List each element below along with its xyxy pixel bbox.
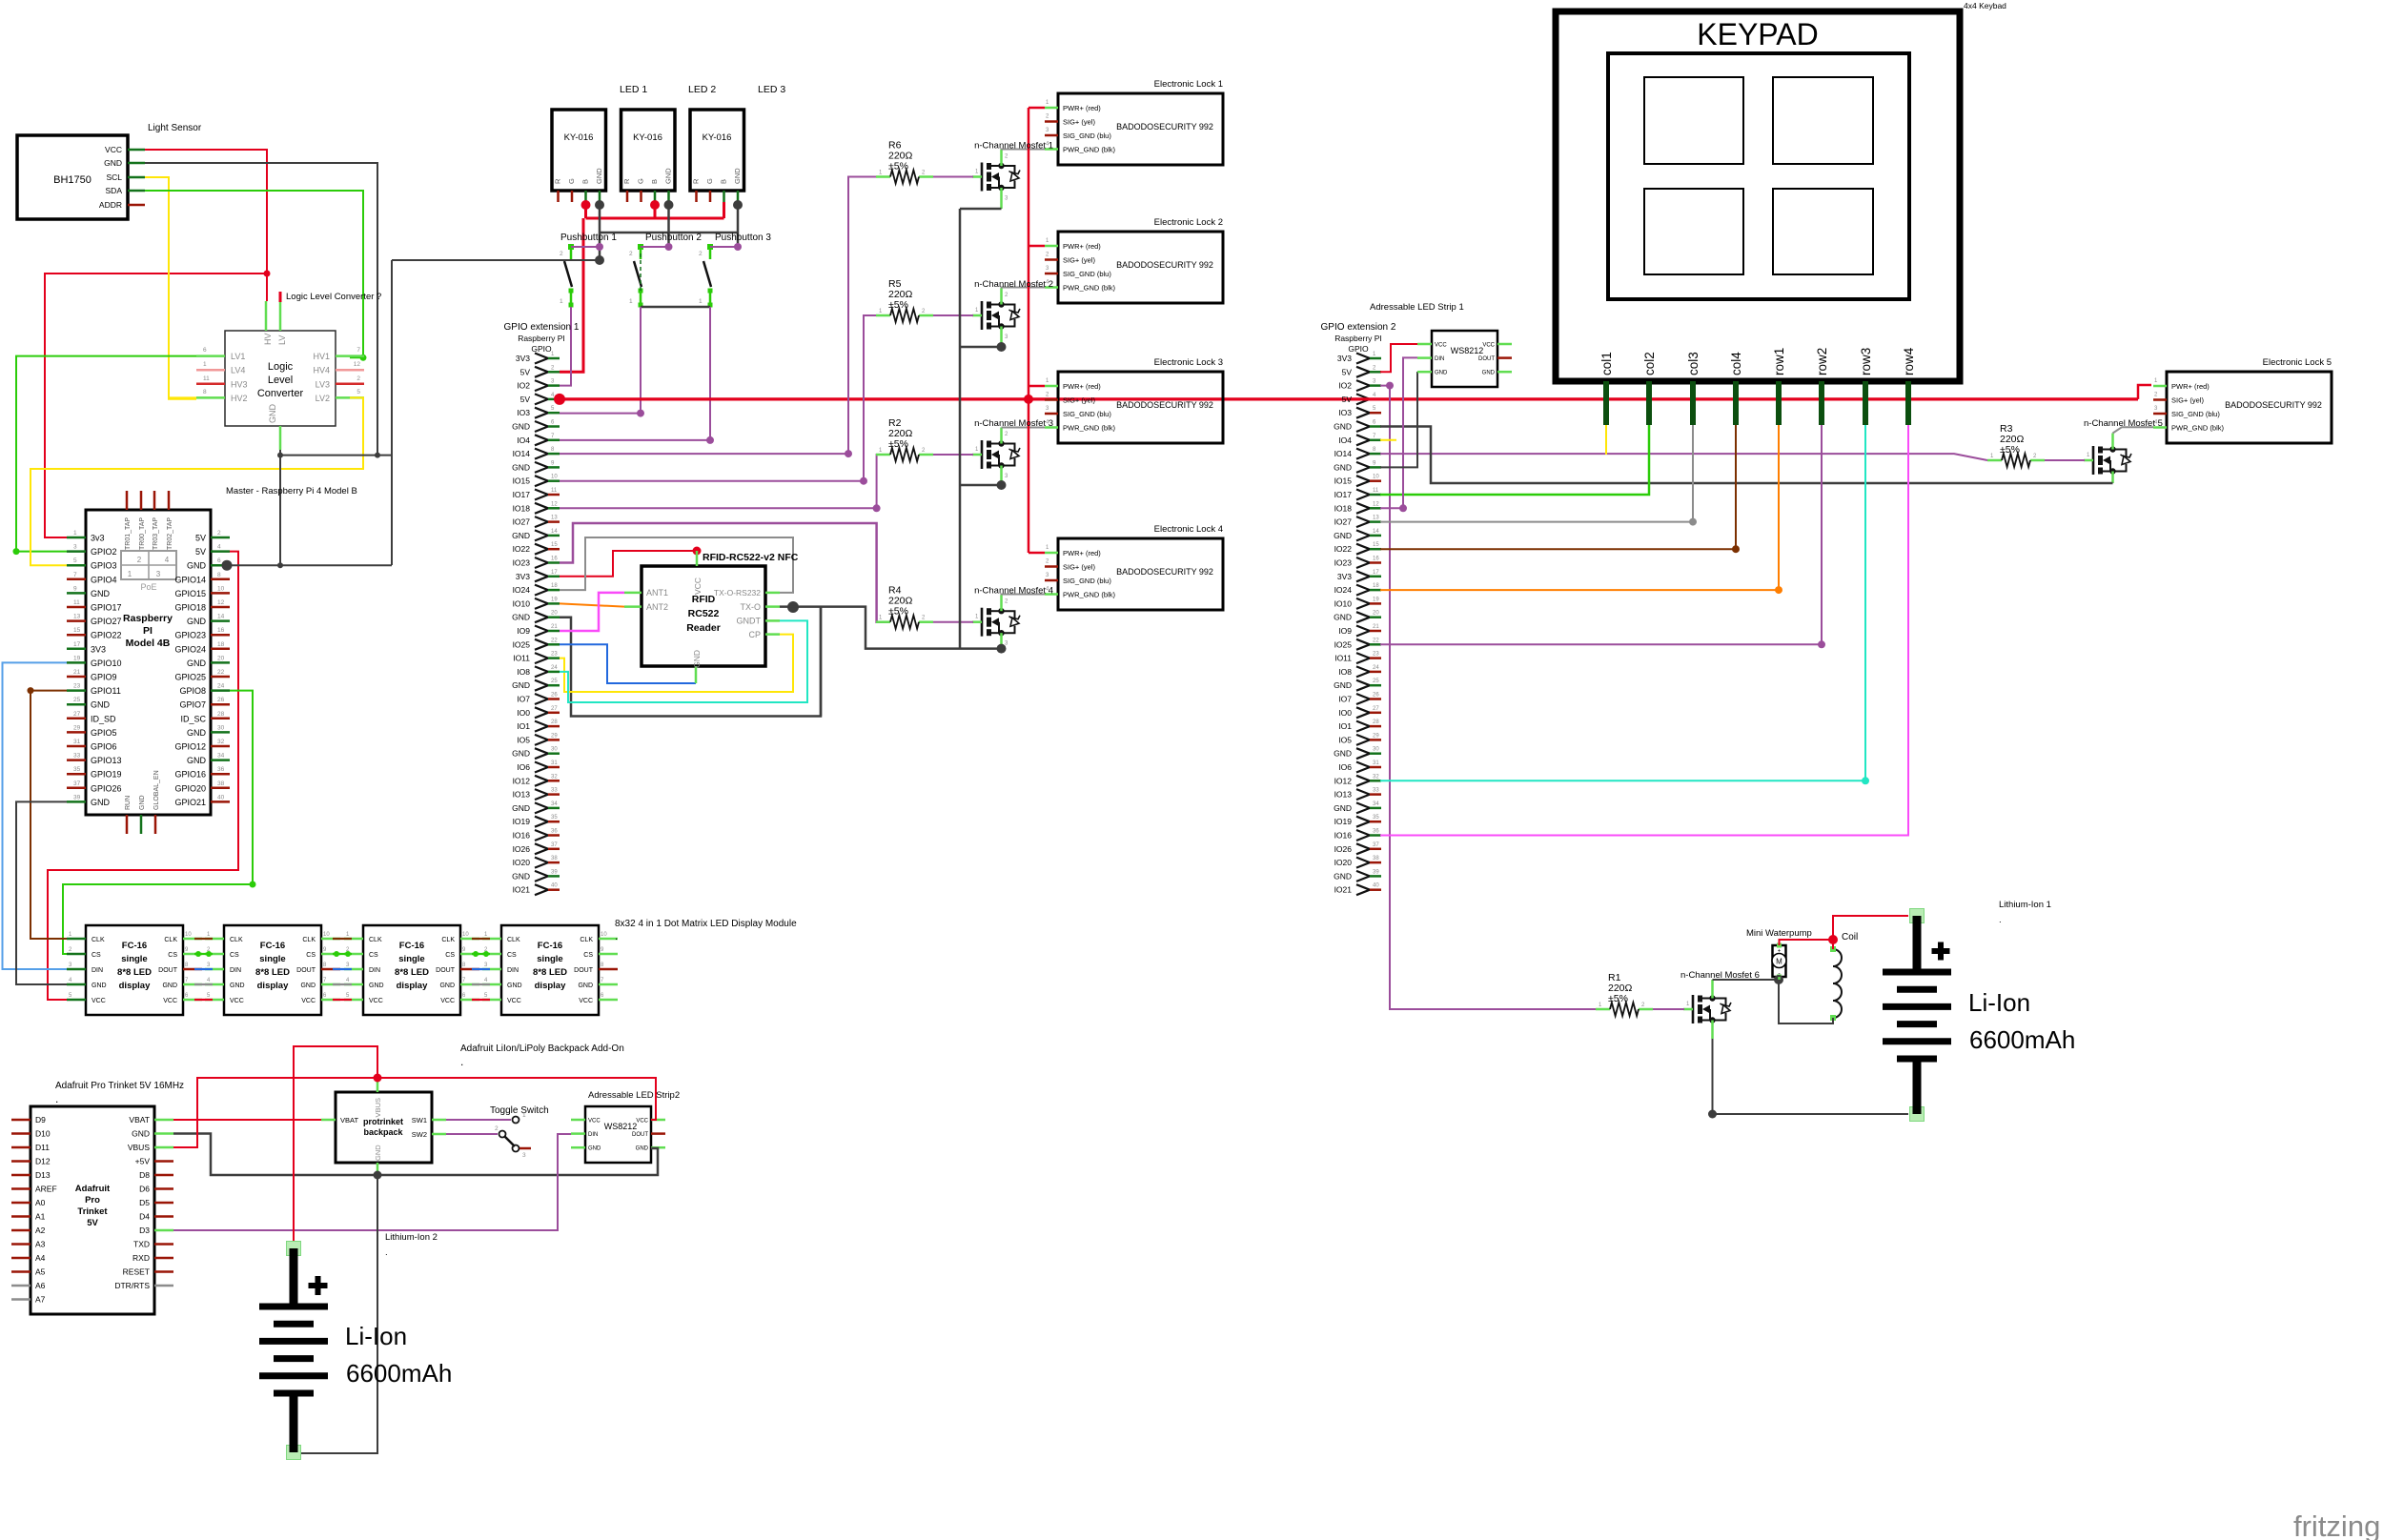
svg-text:3V3: 3V3 (516, 572, 530, 581)
svg-text:33: 33 (551, 788, 558, 794)
svg-text:12: 12 (354, 361, 361, 368)
svg-text:20: 20 (551, 611, 558, 617)
svg-text:display: display (535, 981, 566, 991)
svg-text:KEYPAD: KEYPAD (1697, 17, 1818, 51)
svg-text:protrinket: protrinket (363, 1117, 403, 1126)
svg-text:.: . (55, 1092, 58, 1105)
svg-text:IO12: IO12 (1334, 776, 1353, 785)
svg-text:A5: A5 (35, 1267, 46, 1277)
svg-text:PWR_GND (blk): PWR_GND (blk) (1063, 284, 1116, 293)
svg-text:VCC: VCC (636, 1119, 648, 1125)
svg-text:±5%: ±5% (2000, 444, 2020, 456)
svg-text:Logic Level Converter ?: Logic Level Converter ? (286, 292, 381, 302)
svg-text:single: single (121, 954, 147, 964)
svg-text:GPIO18: GPIO18 (174, 603, 206, 613)
svg-text:±5%: ±5% (888, 299, 908, 311)
svg-text:GND: GND (1482, 371, 1496, 376)
svg-text:IO9: IO9 (517, 626, 530, 636)
svg-text:Raspberry PI: Raspberry PI (518, 334, 565, 343)
svg-text:DOUT: DOUT (632, 1132, 648, 1138)
svg-text:IO23: IO23 (1334, 558, 1353, 568)
svg-text:B: B (650, 179, 659, 184)
svg-text:2: 2 (356, 375, 360, 382)
svg-text:GND: GND (300, 983, 316, 989)
svg-text:18: 18 (1373, 583, 1379, 589)
svg-text:D8: D8 (139, 1170, 150, 1180)
svg-text:34: 34 (217, 753, 225, 760)
svg-text:GND: GND (1334, 803, 1352, 813)
svg-text:GPIO22: GPIO22 (91, 631, 122, 640)
svg-text:CS: CS (583, 952, 593, 959)
svg-text:IO21: IO21 (513, 885, 531, 895)
svg-text:32: 32 (217, 739, 225, 745)
svg-text:HV: HV (263, 333, 273, 345)
svg-text:VCC: VCC (1435, 343, 1447, 349)
svg-text:19: 19 (73, 655, 81, 661)
svg-text:fritzing: fritzing (2293, 1510, 2380, 1540)
svg-text:n-Channel Mosfet 1: n-Channel Mosfet 1 (974, 141, 1053, 152)
svg-text:GPIO20: GPIO20 (174, 783, 206, 793)
svg-text:GND: GND (91, 700, 111, 710)
svg-text:GND: GND (268, 404, 277, 424)
svg-text:5: 5 (356, 389, 360, 395)
svg-text:BADODOSECURITY 992: BADODOSECURITY 992 (1116, 122, 1213, 132)
svg-text:2: 2 (495, 1125, 499, 1132)
svg-text:GPIO8: GPIO8 (179, 686, 206, 696)
svg-text:GND: GND (187, 561, 207, 571)
svg-text:GND: GND (187, 728, 207, 738)
svg-text:GND: GND (91, 798, 111, 807)
svg-text:Logic: Logic (268, 361, 294, 373)
svg-text:33: 33 (73, 753, 81, 760)
svg-text:5V: 5V (1342, 395, 1353, 404)
svg-text:IO22: IO22 (513, 544, 531, 554)
svg-text:IO6: IO6 (1338, 762, 1352, 772)
svg-text:11: 11 (203, 375, 210, 382)
svg-text:±5%: ±5% (888, 438, 908, 450)
svg-text:G: G (705, 178, 714, 184)
svg-text:M: M (1776, 958, 1782, 966)
svg-text:GNDT: GNDT (737, 617, 762, 626)
svg-text:PWR+ (red): PWR+ (red) (1063, 382, 1101, 391)
svg-text:GPIO extension 2: GPIO extension 2 (1321, 322, 1396, 333)
svg-text:DIN: DIN (1435, 356, 1444, 362)
svg-text:single: single (537, 954, 562, 964)
svg-text:Electronic Lock 4: Electronic Lock 4 (1154, 524, 1223, 535)
svg-text:IO19: IO19 (513, 817, 531, 826)
svg-text:GND: GND (578, 983, 593, 989)
svg-text:IO5: IO5 (517, 735, 530, 744)
svg-text:display: display (119, 981, 151, 991)
svg-text:38: 38 (1373, 856, 1379, 861)
svg-text:±5%: ±5% (888, 161, 908, 172)
svg-text:D12: D12 (35, 1157, 51, 1166)
svg-text:GND: GND (369, 983, 384, 989)
svg-text:26: 26 (217, 697, 225, 703)
svg-text:GND: GND (664, 168, 673, 184)
svg-text:24: 24 (217, 683, 225, 690)
svg-text:5: 5 (73, 557, 77, 564)
svg-text:D9: D9 (35, 1115, 46, 1125)
svg-text:1: 1 (522, 1112, 526, 1119)
svg-text:col1: col1 (1599, 352, 1614, 375)
svg-text:GND: GND (507, 983, 522, 989)
svg-text:29: 29 (73, 724, 81, 731)
svg-text:GND: GND (162, 983, 177, 989)
svg-text:VCC: VCC (105, 145, 122, 154)
svg-text:IO18: IO18 (513, 503, 531, 513)
svg-text:display: display (397, 981, 428, 991)
svg-text:CS: CS (507, 952, 517, 959)
svg-text:31: 31 (73, 739, 81, 745)
svg-text:n-Channel Mosfet 6: n-Channel Mosfet 6 (1680, 970, 1760, 981)
svg-text:VCC: VCC (579, 998, 593, 1004)
svg-text:Coil: Coil (1842, 932, 1858, 942)
svg-text:LV3: LV3 (316, 379, 330, 389)
svg-text:Model 4B: Model 4B (126, 638, 171, 649)
svg-text:ANT2: ANT2 (646, 602, 668, 612)
svg-text:VCC: VCC (507, 998, 521, 1004)
svg-text:1: 1 (699, 298, 703, 305)
svg-text:GPIO4: GPIO4 (91, 575, 117, 584)
svg-text:TR00_TAP: TR00_TAP (139, 517, 146, 550)
svg-text:DOUT: DOUT (158, 967, 178, 974)
svg-text:5V: 5V (520, 395, 531, 404)
svg-text:PWR+ (red): PWR+ (red) (2171, 382, 2210, 391)
svg-text:GND: GND (595, 168, 603, 184)
svg-text:DIN: DIN (92, 967, 103, 974)
svg-text:Li-Ion: Li-Ion (1968, 988, 2030, 1017)
svg-text:RUN: RUN (125, 796, 132, 810)
svg-text:A0: A0 (35, 1198, 46, 1207)
svg-text:SIG+ (yel): SIG+ (yel) (1063, 396, 1095, 405)
svg-text:31: 31 (1373, 760, 1379, 766)
svg-text:SDA: SDA (106, 186, 123, 195)
svg-text:col3: col3 (1686, 352, 1701, 375)
svg-text:8*8 LED: 8*8 LED (533, 967, 567, 978)
svg-text:CLK: CLK (92, 937, 105, 943)
svg-text:1: 1 (629, 298, 633, 305)
svg-text:CS: CS (445, 952, 455, 959)
svg-text:30: 30 (1373, 747, 1379, 753)
svg-text:+5V: +5V (135, 1157, 151, 1166)
svg-text:GPIO16: GPIO16 (174, 770, 206, 780)
svg-text:Master - Raspberry Pi 4 Model: Master - Raspberry Pi 4 Model B (226, 486, 357, 496)
svg-text:Adafruit LiIon/LiPoly Backpack: Adafruit LiIon/LiPoly Backpack Add-On (460, 1044, 624, 1054)
svg-text:SCL: SCL (106, 172, 122, 182)
svg-text:32: 32 (1373, 774, 1379, 780)
svg-text:DIN: DIN (507, 967, 519, 974)
svg-text:SIG_GND (blu): SIG_GND (blu) (1063, 410, 1111, 418)
svg-text:IO3: IO3 (517, 408, 530, 417)
svg-text:PWR_GND (blk): PWR_GND (blk) (2171, 424, 2225, 433)
svg-text:3: 3 (156, 570, 161, 578)
svg-text:37: 37 (73, 780, 81, 787)
svg-text:single: single (259, 954, 285, 964)
svg-text:DIN: DIN (230, 967, 241, 974)
svg-text:IO19: IO19 (1334, 817, 1353, 826)
svg-text:1: 1 (73, 530, 77, 537)
svg-text:IO22: IO22 (1334, 544, 1353, 554)
svg-text:GND: GND (1334, 680, 1352, 690)
svg-text:5V: 5V (520, 367, 531, 376)
svg-text:GND: GND (733, 168, 742, 184)
svg-text:DIN: DIN (588, 1132, 598, 1138)
svg-text:30: 30 (217, 724, 225, 731)
svg-text:GND: GND (187, 617, 207, 626)
svg-text:CP: CP (748, 630, 761, 639)
svg-text:2: 2 (629, 251, 633, 257)
svg-text:19: 19 (551, 597, 558, 602)
svg-text:IO5: IO5 (1338, 735, 1352, 744)
svg-text:D11: D11 (35, 1143, 50, 1152)
svg-text:32: 32 (551, 774, 558, 780)
svg-text:IO3: IO3 (1338, 408, 1352, 417)
svg-text:Level: Level (268, 375, 293, 386)
svg-text:row3: row3 (1859, 348, 1873, 375)
svg-text:IO1: IO1 (517, 721, 530, 731)
svg-text:CLK: CLK (369, 937, 382, 943)
svg-text:27: 27 (1373, 706, 1379, 712)
svg-text:CS: CS (306, 952, 316, 959)
svg-text:BADODOSECURITY 992: BADODOSECURITY 992 (2225, 400, 2322, 410)
svg-text:+: + (1778, 949, 1782, 955)
svg-text:IO15: IO15 (513, 476, 531, 486)
svg-text:A1: A1 (35, 1212, 46, 1222)
svg-text:IO7: IO7 (517, 695, 530, 704)
svg-text:11: 11 (551, 488, 558, 494)
svg-text:14: 14 (551, 529, 558, 535)
svg-text:HV3: HV3 (231, 379, 248, 389)
svg-text:row1: row1 (1772, 348, 1786, 375)
svg-text:R: R (622, 178, 631, 184)
svg-text:SIG_GND (blu): SIG_GND (blu) (1063, 577, 1111, 585)
svg-text:IO25: IO25 (1334, 639, 1353, 649)
svg-text:35: 35 (73, 766, 81, 773)
svg-text:IO27: IO27 (1334, 517, 1353, 527)
svg-text:VCC: VCC (1482, 343, 1495, 349)
svg-text:RXD: RXD (132, 1253, 150, 1263)
svg-text:IO24: IO24 (513, 585, 531, 595)
svg-text:IO16: IO16 (1334, 831, 1353, 841)
svg-text:21: 21 (73, 669, 81, 676)
svg-text:GPIO9: GPIO9 (91, 673, 117, 682)
svg-text:36: 36 (1373, 829, 1379, 835)
svg-text:Adafruit Pro Trinket 5V 16MHz: Adafruit Pro Trinket 5V 16MHz (55, 1081, 184, 1091)
svg-text:25: 25 (1373, 679, 1379, 684)
svg-text:40: 40 (551, 883, 558, 889)
svg-text:IO9: IO9 (1338, 626, 1352, 636)
svg-text:3V3: 3V3 (1337, 354, 1352, 363)
svg-text:R: R (554, 178, 562, 184)
svg-text:single: single (398, 954, 424, 964)
svg-text:12: 12 (217, 599, 225, 606)
svg-text:SW2: SW2 (412, 1130, 427, 1139)
svg-text:GLOBAL_EN: GLOBAL_EN (153, 770, 160, 810)
svg-text:30: 30 (551, 747, 558, 753)
svg-text:27: 27 (73, 711, 81, 718)
svg-text:GPIO25: GPIO25 (174, 673, 206, 682)
svg-text:Reader: Reader (686, 622, 721, 634)
svg-text:22: 22 (1373, 638, 1379, 643)
svg-text:IO1: IO1 (1338, 721, 1352, 731)
svg-text:Lithium-Ion 2: Lithium-Ion 2 (385, 1232, 438, 1243)
svg-text:IO17: IO17 (1334, 490, 1353, 499)
svg-text:n-Channel Mosfet 2: n-Channel Mosfet 2 (974, 279, 1053, 290)
svg-text:10: 10 (1373, 475, 1379, 480)
svg-text:GND: GND (692, 650, 702, 668)
svg-text:18: 18 (217, 641, 225, 648)
svg-text:IO20: IO20 (513, 858, 531, 867)
svg-text:GND: GND (588, 1146, 601, 1152)
svg-text:col4: col4 (1729, 352, 1743, 375)
svg-text:15: 15 (1373, 542, 1379, 548)
svg-text:row4: row4 (1902, 347, 1916, 375)
svg-text:GND: GND (512, 613, 530, 622)
svg-text:4: 4 (217, 544, 221, 551)
svg-text:GND: GND (512, 680, 530, 690)
svg-text:Mini Waterpump: Mini Waterpump (1746, 928, 1812, 939)
svg-text:D4: D4 (139, 1212, 150, 1222)
svg-text:17: 17 (551, 570, 558, 576)
svg-text:IO17: IO17 (513, 490, 531, 499)
svg-text:3V3: 3V3 (516, 354, 530, 363)
svg-text:38: 38 (551, 856, 558, 861)
svg-text:12: 12 (1373, 501, 1379, 507)
svg-text:LED 2: LED 2 (688, 84, 716, 95)
svg-text:VBUS: VBUS (374, 1098, 382, 1117)
svg-text:1: 1 (128, 570, 132, 578)
svg-text:LED 1: LED 1 (620, 84, 647, 95)
svg-text:D3: D3 (139, 1226, 150, 1235)
svg-text:SIG_GND (blu): SIG_GND (blu) (2171, 410, 2220, 418)
svg-text:WS8212: WS8212 (1451, 346, 1484, 355)
svg-text:16: 16 (217, 627, 225, 634)
svg-text:CLK: CLK (230, 937, 243, 943)
svg-text:VCC: VCC (230, 998, 244, 1004)
svg-text:Adafruit: Adafruit (75, 1184, 111, 1194)
svg-text:6: 6 (217, 557, 221, 564)
svg-text:FC-16: FC-16 (260, 941, 285, 951)
svg-text:40: 40 (217, 794, 225, 800)
svg-text:Adressable LED Strip 1: Adressable LED Strip 1 (1370, 302, 1464, 313)
svg-text:Electronic Lock 5: Electronic Lock 5 (2263, 357, 2332, 368)
svg-text:GND: GND (512, 422, 530, 432)
svg-text:21: 21 (551, 624, 558, 630)
svg-text:3: 3 (73, 544, 77, 551)
svg-text:2: 2 (699, 251, 703, 257)
svg-text:GPIO3: GPIO3 (91, 561, 117, 571)
svg-text:2: 2 (217, 530, 221, 537)
svg-text:Electronic Lock 2: Electronic Lock 2 (1154, 217, 1223, 228)
svg-text:GPIO2: GPIO2 (91, 547, 117, 557)
svg-text:KY-016: KY-016 (633, 132, 662, 143)
svg-text:20: 20 (1373, 611, 1379, 617)
svg-text:GPIO27: GPIO27 (91, 617, 122, 626)
svg-text:GPIO19: GPIO19 (91, 770, 122, 780)
svg-text:SIG+ (yel): SIG+ (yel) (2171, 396, 2204, 405)
svg-text:IO21: IO21 (1334, 885, 1353, 895)
svg-text:BADODOSECURITY 992: BADODOSECURITY 992 (1116, 400, 1213, 410)
svg-text:GND: GND (132, 1129, 150, 1139)
svg-text:36: 36 (551, 829, 558, 835)
svg-text:7: 7 (73, 572, 77, 578)
svg-text:8*8 LED: 8*8 LED (117, 967, 152, 978)
svg-text:17: 17 (1373, 570, 1379, 576)
svg-text:GND: GND (512, 871, 530, 881)
svg-text:GND: GND (1435, 371, 1448, 376)
svg-text:GPIO21: GPIO21 (174, 798, 206, 807)
svg-text:RFID-RC522-v2 NFC: RFID-RC522-v2 NFC (703, 552, 799, 563)
svg-text:±5%: ±5% (888, 606, 908, 618)
svg-text:LV1: LV1 (231, 352, 245, 361)
svg-text:15: 15 (551, 542, 558, 548)
svg-text:GPIO24: GPIO24 (174, 644, 206, 654)
svg-text:A2: A2 (35, 1226, 46, 1235)
svg-text:5V: 5V (1342, 367, 1353, 376)
svg-text:GND: GND (512, 749, 530, 759)
svg-text:14: 14 (217, 614, 225, 620)
svg-text:29: 29 (551, 733, 558, 739)
svg-text:D10: D10 (35, 1129, 51, 1139)
svg-text:GND: GND (1334, 531, 1352, 540)
svg-text:25: 25 (73, 697, 81, 703)
svg-text:LV2: LV2 (316, 394, 330, 403)
svg-text:VCC: VCC (92, 998, 106, 1004)
svg-text:GPIO12: GPIO12 (174, 742, 206, 752)
svg-text:IO4: IO4 (517, 436, 530, 445)
svg-text:GND: GND (230, 983, 245, 989)
svg-text:n-Channel Mosfet 5: n-Channel Mosfet 5 (2084, 418, 2163, 429)
svg-text:HV4: HV4 (313, 366, 330, 375)
svg-text:Trinket: Trinket (77, 1206, 108, 1217)
svg-text:19: 19 (1373, 597, 1379, 602)
svg-text:10: 10 (601, 932, 607, 938)
svg-text:GPIO10: GPIO10 (91, 659, 122, 668)
svg-text:7: 7 (356, 347, 360, 354)
svg-text:IO18: IO18 (1334, 503, 1353, 513)
svg-text:FC-16: FC-16 (538, 941, 562, 951)
svg-text:Pushbutton 1: Pushbutton 1 (560, 233, 617, 243)
svg-text:PWR_GND (blk): PWR_GND (blk) (1063, 591, 1116, 599)
svg-text:ADDR: ADDR (99, 200, 122, 210)
svg-text:PWR+ (red): PWR+ (red) (1063, 242, 1101, 251)
svg-text:n-Channel Mosfet 3: n-Channel Mosfet 3 (974, 418, 1053, 429)
svg-text:34: 34 (551, 801, 558, 807)
svg-text:IO24: IO24 (1334, 585, 1353, 595)
svg-text:IO11: IO11 (1334, 654, 1352, 663)
svg-text:TXD: TXD (133, 1240, 150, 1249)
svg-text:GPIO: GPIO (531, 344, 552, 354)
svg-text:WS8212: WS8212 (604, 1122, 638, 1131)
svg-text:GND: GND (139, 795, 146, 810)
svg-text:8x32 4 in 1 Dot Matrix LED Dis: 8x32 4 in 1 Dot Matrix LED Display Modul… (615, 919, 797, 929)
svg-text:IO2: IO2 (1338, 381, 1352, 391)
svg-text:12: 12 (551, 501, 558, 507)
svg-text:16: 16 (551, 557, 558, 562)
svg-text:IO26: IO26 (1334, 844, 1353, 854)
svg-text:RESET: RESET (123, 1267, 150, 1277)
svg-text:GPIO11: GPIO11 (91, 686, 121, 696)
svg-text:IO6: IO6 (517, 762, 530, 772)
svg-text:10: 10 (185, 932, 192, 938)
svg-text:9: 9 (73, 585, 77, 592)
svg-text:LED 3: LED 3 (758, 84, 785, 95)
svg-text:8*8 LED: 8*8 LED (395, 967, 429, 978)
svg-text:DOUT: DOUT (574, 967, 594, 974)
svg-text:2: 2 (560, 251, 563, 257)
svg-text:8*8 LED: 8*8 LED (255, 967, 290, 978)
